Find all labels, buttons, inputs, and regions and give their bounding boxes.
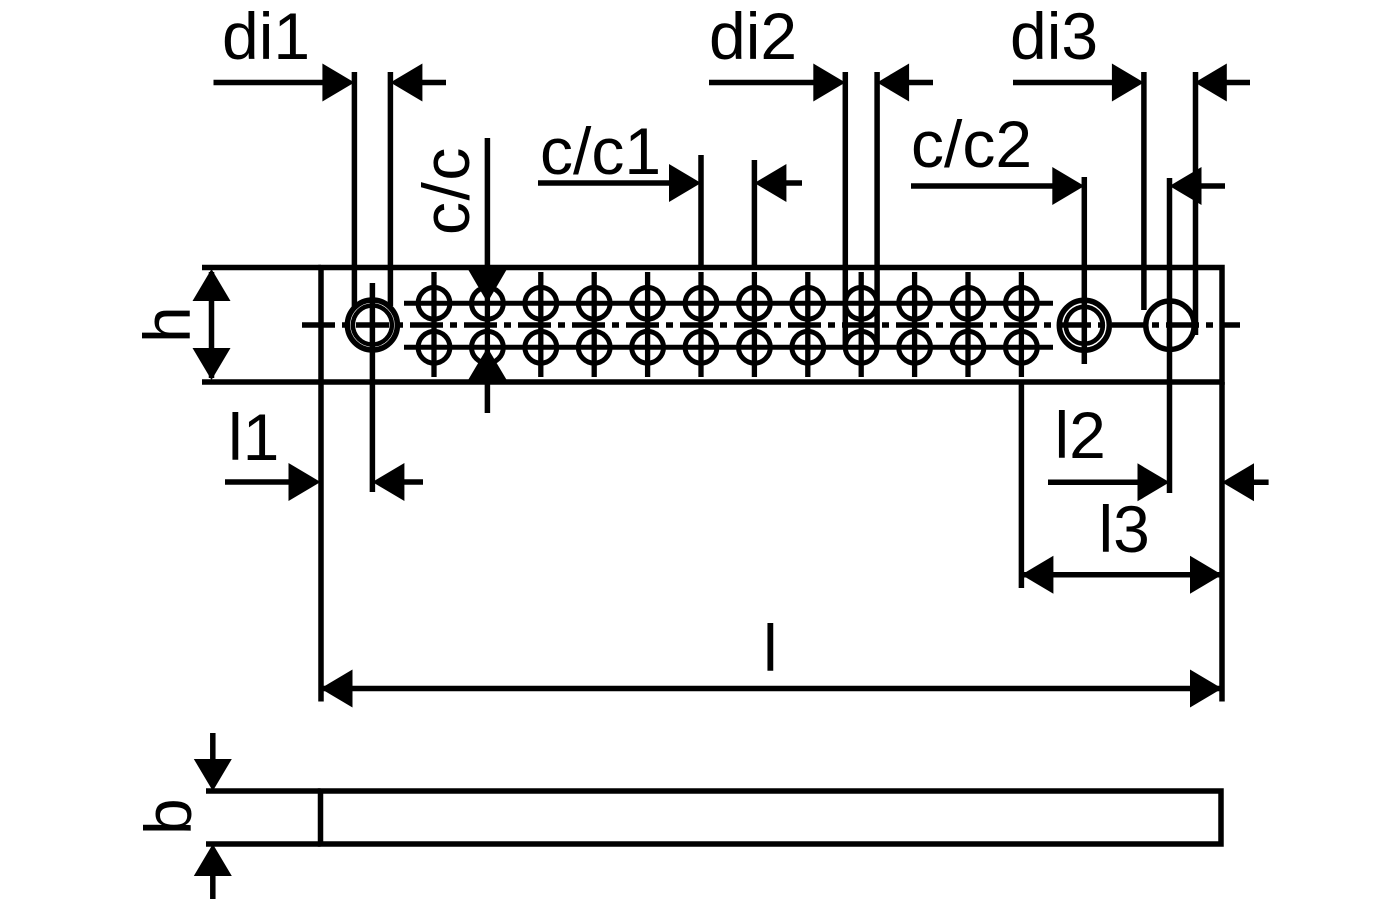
arrowhead h down-pointing (193, 348, 231, 380)
svg-text:c/c: c/c (409, 146, 483, 235)
ring hole left vertical center mark (370, 283, 376, 492)
side view outline (321, 791, 1222, 844)
arrowhead c/c1 right-pointing (669, 164, 701, 202)
big plain hole right (1146, 301, 1194, 349)
dimension di3 extension lines (1141, 72, 1147, 310)
arrowhead di2 right-pointing (813, 64, 845, 102)
svg-text:l1: l1 (228, 400, 279, 474)
arrowhead c/c down-pointing (468, 270, 506, 303)
svg-text:l3: l3 (1099, 492, 1150, 566)
svg-text:h: h (130, 306, 204, 343)
dimension c/c extension line (485, 138, 491, 267)
side view bottom edge extension left (206, 841, 321, 847)
arrowhead b up-pointing (194, 844, 232, 876)
shared extension line through big hole (1167, 178, 1173, 493)
dimension di3 leader right (1225, 80, 1250, 86)
ring hole left outer (347, 300, 397, 350)
dimension di3 leader left (1013, 80, 1114, 86)
dimension c/c1 leader right (784, 180, 802, 186)
dimension h arrow line (209, 272, 215, 378)
dimension l1 bar-edge extension below (318, 382, 324, 702)
dimension c/c2 extension line (1082, 177, 1088, 364)
arrowhead di3 right-pointing (1112, 64, 1144, 102)
svg-text:b: b (131, 798, 205, 835)
svg-text:di3: di3 (1010, 0, 1098, 73)
dimension l3 extension line (1019, 383, 1025, 588)
centerline main (dash-dot) (302, 322, 1240, 328)
arrowhead c/c up-pointing (468, 348, 506, 380)
arrowhead l2 left-pointing (1222, 463, 1254, 501)
dimension c/c1 leader left (538, 180, 671, 186)
dimension di2 leader left (709, 80, 815, 86)
dimension b upper arrow line (210, 733, 216, 760)
small holes bottom row (418, 331, 1037, 363)
ring hole right outer (1059, 300, 1109, 350)
arrowhead l1 left-pointing (372, 463, 404, 501)
dimension di1 leader left (214, 80, 325, 86)
arrowhead di1 left-pointing (390, 64, 422, 102)
svg-text:c/c2: c/c2 (911, 107, 1032, 181)
arrowhead b down-pointing (194, 759, 232, 791)
arrowhead c/c2 right-pointing (1052, 167, 1084, 205)
dimension l1 leader left (225, 479, 290, 485)
arrowhead l2 right-pointing (1138, 463, 1170, 501)
dimension c/c2 leader right (1200, 183, 1226, 189)
arrowhead c/c2 left-pointing (1170, 167, 1202, 205)
dimension di2 leader right (907, 80, 933, 86)
dimension l2 leader left (1048, 480, 1140, 486)
dimension l line (321, 686, 1223, 692)
row centerline top (404, 301, 1053, 306)
arrowhead di3 left-pointing (1195, 64, 1227, 102)
row centerline bottom (404, 345, 1053, 350)
arrowhead c/c1 left-pointing (754, 164, 786, 202)
svg-text:c/c1: c/c1 (540, 114, 661, 188)
arrowhead l left-pointing (321, 670, 353, 708)
dimension c/c1 extension lines (698, 155, 704, 267)
ring hole left inner (353, 306, 392, 345)
svg-text:di1: di1 (222, 0, 310, 73)
svg-text:l2: l2 (1055, 398, 1106, 472)
small holes top row (418, 287, 1037, 319)
arrowhead l3 left-pointing (1021, 556, 1053, 594)
side view top edge extension left (206, 788, 321, 794)
dimension di1 extension lines (352, 72, 358, 308)
arrowhead l1 right-pointing (289, 463, 321, 501)
dimension di1 leader right (420, 80, 446, 86)
arrowhead h up-pointing (193, 269, 231, 301)
dimension l3 line (1021, 572, 1222, 578)
dimension b lower arrow line (210, 874, 216, 899)
hole column center marks (434, 272, 1021, 377)
dimension l2 leader right (1252, 480, 1269, 486)
arrowhead di2 left-pointing (877, 64, 909, 102)
wire top edge extension left (202, 265, 321, 271)
arrowhead l right-pointing (1190, 670, 1222, 708)
svg-text:l: l (763, 611, 778, 685)
arrowhead di1 right-pointing (322, 64, 354, 102)
dimension c/c2 leader left (911, 183, 1054, 189)
svg-text:di2: di2 (709, 0, 797, 73)
bar right edge extension below (1219, 382, 1225, 702)
arrowhead l3 right-pointing (1190, 556, 1222, 594)
dimension l1 leader right (402, 479, 423, 485)
wire bottom edge extension left (202, 379, 321, 385)
dimension c/c extension below bar (485, 382, 491, 413)
dimension di2 extension lines (843, 72, 849, 348)
bar outline (top view) (321, 268, 1222, 383)
ring hole right inner (1066, 307, 1103, 344)
